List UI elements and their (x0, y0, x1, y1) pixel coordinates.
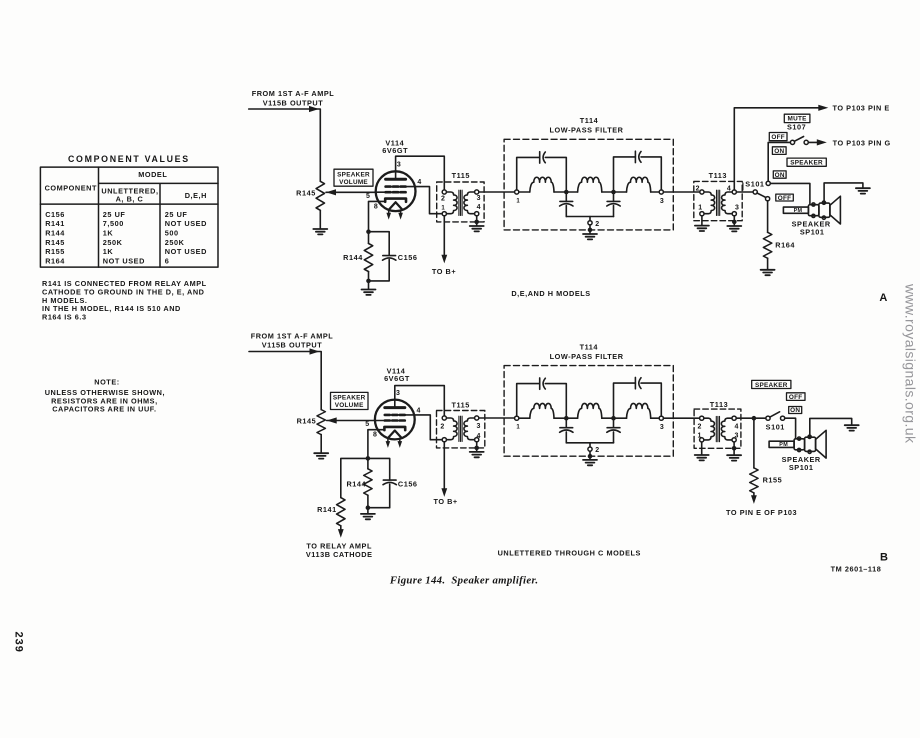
svg-text:VOLUME: VOLUME (339, 179, 368, 186)
bridge capacitor 2 wire (A) (614, 157, 662, 190)
node cathode junction (B) (366, 456, 371, 461)
svg-text:V115B OUTPUT: V115B OUTPUT (262, 340, 323, 349)
label box SPEAKER VOLUME (B) (331, 392, 369, 409)
svg-text:1K: 1K (103, 228, 114, 237)
svg-text:6V6GT: 6V6GT (384, 374, 410, 383)
speaker SP101 (A) (783, 196, 840, 224)
wire L1 to L2 (A) (554, 191, 578, 193)
wire junction to R141 (B) (341, 458, 368, 497)
svg-text:PM: PM (794, 208, 803, 214)
svg-text:1: 1 (441, 205, 445, 211)
wire S101 ON to speaker (A) (770, 183, 810, 204)
svg-text:3: 3 (660, 424, 664, 431)
svg-text:C156: C156 (398, 253, 418, 262)
svg-text:SPEAKER: SPEAKER (755, 382, 788, 389)
bottom rail (B) (566, 442, 613, 444)
svg-text:R145: R145 (297, 416, 317, 425)
svg-text:VOLUME: VOLUME (335, 402, 364, 409)
svg-text:T113: T113 (709, 171, 727, 180)
wire speaker to ground (A) (824, 183, 863, 203)
label box ON (S101 A) (773, 171, 786, 178)
svg-text:3: 3 (735, 205, 739, 212)
svg-text:5: 5 (365, 421, 369, 428)
resistor R155 (753, 418, 755, 468)
wire L2 to L3 (B) (602, 417, 627, 419)
svg-text:8: 8 (373, 432, 377, 439)
svg-text:ON: ON (775, 172, 785, 179)
ground T114 (A) (583, 234, 597, 239)
svg-text:1: 1 (698, 205, 702, 212)
label box ON (B) (789, 407, 802, 414)
T114 dashed box (B) (504, 366, 673, 457)
node junction 1 (B) (564, 416, 569, 421)
svg-text:R145: R145 (296, 188, 316, 197)
inductor L3 (A) (627, 177, 651, 192)
wire to P103 pin E (734, 108, 822, 190)
ground T114 (B) (583, 460, 597, 465)
resistor R164 (767, 201, 769, 233)
svg-text:COMPONENT VALUES: COMPONENT VALUES (68, 154, 190, 164)
wire plate to T115 pin2 (A) (396, 156, 445, 190)
svg-text:3: 3 (735, 432, 739, 439)
potentiometer R145 (B) (317, 410, 325, 435)
svg-text:LOW-PASS FILTER: LOW-PASS FILTER (550, 126, 624, 135)
svg-text:T114: T114 (580, 343, 599, 352)
component values table grid (40, 167, 218, 267)
wire R155 to pin E of P103 (753, 493, 755, 496)
svg-text:2: 2 (595, 221, 599, 228)
node junction 2 (B) (611, 416, 616, 421)
ground T115 (A) (470, 226, 484, 231)
svg-text:4: 4 (416, 407, 420, 414)
wire cathode down (B) (368, 430, 378, 456)
svg-text:FROM 1ST A-F AMPL: FROM 1ST A-F AMPL (251, 332, 334, 341)
svg-text:3: 3 (477, 195, 481, 202)
svg-text:NOTE:: NOTE: (94, 378, 119, 387)
svg-text:2: 2 (595, 447, 599, 454)
svg-text:239: 239 (13, 632, 25, 653)
svg-text:3: 3 (397, 162, 401, 169)
inductor L1 (B) (530, 403, 554, 418)
wire T113 pin3 to ground (B) (733, 442, 735, 455)
wire T115 pin3 to filter (B) (479, 417, 515, 419)
shunt capacitor 1 (B) (565, 421, 567, 428)
svg-text:4: 4 (727, 185, 731, 192)
svg-text:TO B+: TO B+ (433, 497, 457, 506)
switch S107 (790, 140, 794, 144)
svg-text:2: 2 (440, 423, 444, 430)
svg-text:R141: R141 (317, 505, 337, 514)
svg-text:2: 2 (697, 424, 701, 431)
wire screen to T115 pin1 (A) (415, 187, 442, 214)
wire filter to T113 (A) (663, 191, 699, 193)
svg-text:6V6GT: 6V6GT (382, 146, 408, 155)
svg-text:4: 4 (477, 433, 481, 440)
svg-text:T115: T115 (451, 401, 469, 410)
svg-text:S101: S101 (766, 423, 785, 432)
svg-text:NOT USED: NOT USED (165, 219, 207, 228)
T114 terminal 2 (B) (589, 443, 591, 447)
node cathode junction (A) (366, 229, 371, 234)
wire R141 to relay ampl (340, 526, 342, 531)
svg-text:3: 3 (396, 390, 400, 397)
label box SPEAKER (A) (787, 158, 826, 166)
wire filter to T113 (B) (663, 417, 699, 419)
speaker SP101 (B) (769, 430, 826, 458)
svg-text:SP101: SP101 (789, 463, 814, 472)
svg-text:7,500: 7,500 (103, 219, 124, 228)
label box OFF (S107) (769, 133, 787, 141)
svg-text:250K: 250K (103, 238, 123, 247)
svg-text:SPEAKER: SPEAKER (333, 395, 366, 402)
svg-text:CAPACITORS ARE IN UUF.: CAPACITORS ARE IN UUF. (52, 405, 156, 414)
svg-text:PM: PM (779, 442, 788, 448)
node junction 2 (A) (611, 190, 616, 195)
svg-text:2: 2 (696, 185, 700, 192)
ground speaker (A) (856, 188, 870, 193)
label box SPEAKER VOLUME (A) (334, 169, 373, 186)
wire term2 to ground (B) (589, 451, 591, 459)
bridge capacitor 1 (A) (540, 152, 546, 163)
ground below R145 (B) (314, 453, 328, 458)
svg-text:25 UF: 25 UF (165, 210, 188, 219)
inductor L2 (A) (578, 177, 602, 192)
svg-text:D,E,H: D,E,H (185, 191, 207, 200)
label box MUTE (784, 114, 810, 122)
svg-text:T113: T113 (710, 400, 728, 409)
svg-text:R145: R145 (45, 238, 65, 247)
shunt capacitor 1 (A) (565, 194, 567, 201)
label box ON (S107) (772, 147, 786, 155)
node junction 1 (A) (564, 190, 569, 195)
svg-text:1K: 1K (103, 247, 114, 256)
ground T113 right (B) (727, 455, 741, 460)
wire R144 bottom (B) (367, 495, 369, 508)
svg-text:R155: R155 (45, 247, 65, 256)
svg-text:OFF: OFF (789, 394, 803, 401)
wire input B (249, 352, 321, 410)
wire to P103 pin G (808, 141, 821, 143)
svg-text:SP101: SP101 (800, 228, 825, 237)
svg-text:R144: R144 (343, 253, 363, 262)
svg-text:4: 4 (477, 204, 481, 211)
ground T115 (B) (470, 452, 484, 457)
ground T113 left (B) (695, 455, 709, 460)
svg-text:TO B+: TO B+ (432, 267, 456, 276)
bridge capacitor 1 (B) (540, 378, 546, 389)
inductor L1 (A) (530, 177, 554, 192)
inductor L2 (B) (578, 403, 602, 418)
capacitor C156 (B) (383, 480, 396, 485)
T114 dashed box (A) (504, 139, 673, 230)
svg-text:R144: R144 (346, 479, 366, 488)
svg-text:SPEAKER: SPEAKER (790, 160, 823, 167)
svg-text:Figure 144. Speaker amplifier: Figure 144. Speaker amplifier. (389, 575, 538, 587)
svg-text:T114: T114 (580, 116, 599, 125)
wire C156 bottom (A) (369, 259, 390, 281)
svg-text:250K: 250K (165, 238, 185, 247)
wire T115 pin4 to ground (A) (476, 216, 478, 225)
wire R164 to ground (767, 258, 769, 269)
svg-text:UNLETTERED THROUGH C MODELS: UNLETTERED THROUGH C MODELS (498, 548, 641, 557)
ground speaker (B) (845, 425, 859, 430)
wire junction to C156 (B) (368, 458, 390, 480)
bridge capacitor 2 (A) (635, 151, 641, 162)
svg-text:NOT USED: NOT USED (165, 247, 207, 256)
svg-text:S101: S101 (745, 179, 764, 188)
svg-text:V115B OUTPUT: V115B OUTPUT (263, 99, 324, 108)
svg-text:R155: R155 (763, 476, 783, 485)
svg-text:A, B, C: A, B, C (116, 195, 144, 204)
svg-text:8: 8 (374, 203, 378, 210)
label box OFF (B) (787, 393, 806, 401)
bridge capacitor 1 wire (A) (517, 157, 567, 190)
svg-text:5: 5 (366, 193, 370, 200)
wire C156 bottom (B) (368, 484, 390, 508)
wire cathode down (A) (369, 201, 379, 229)
wire S101 to speaker (B) (785, 418, 796, 438)
svg-text:OFF: OFF (771, 134, 785, 141)
svg-text:www.royalsignals.org.uk: www.royalsignals.org.uk (903, 283, 919, 444)
svg-text:S107: S107 (787, 123, 806, 132)
wire L2 to L3 (A) (602, 191, 627, 193)
bridge capacitor 1 wire (B) (517, 384, 567, 417)
inductor L3 (B) (627, 403, 651, 418)
svg-text:1: 1 (516, 425, 520, 431)
wire input A (249, 109, 321, 181)
svg-text:1: 1 (516, 198, 520, 204)
svg-text:V113B CATHODE: V113B CATHODE (306, 550, 373, 559)
wire T115 pin4 to ground (B) (476, 442, 478, 451)
switch S101 (B) (766, 416, 770, 420)
svg-text:FROM 1ST A-F AMPL: FROM 1ST A-F AMPL (252, 89, 335, 98)
svg-text:2: 2 (441, 195, 445, 202)
T114 terminal 1 (B) (515, 416, 519, 420)
wire R145 to ground (A) (319, 210, 321, 228)
wire wiper to grid (B) (327, 420, 376, 422)
resistor R141 (337, 498, 345, 526)
wire speaker to ground (B) (810, 418, 852, 437)
svg-text:OFF: OFF (778, 195, 792, 202)
svg-text:TO P103 PIN G: TO P103 PIN G (833, 138, 891, 147)
svg-text:TM 2601–118: TM 2601–118 (831, 565, 882, 574)
svg-text:T115: T115 (452, 171, 470, 180)
ground T113 left (A) (695, 226, 709, 231)
wire T113 pin1 to ground (A) (701, 216, 703, 225)
wire L3 to term3 (A) (651, 191, 660, 193)
wire to B+ (B) (443, 442, 445, 488)
svg-text:4: 4 (417, 179, 421, 186)
svg-text:TO PIN E OF P103: TO PIN E OF P103 (726, 508, 797, 517)
T114 terminal 3 (B) (659, 416, 663, 420)
svg-text:4: 4 (735, 424, 739, 431)
label box OFF (S101 A) (776, 194, 794, 201)
shunt capacitor 2 (A) (613, 194, 615, 201)
wire R144 to ground (A) (368, 272, 370, 289)
wiper arrow R145 (A) (326, 189, 336, 195)
wire term1 to L1 (B) (519, 417, 530, 419)
wire L3 to term3 (B) (651, 417, 660, 419)
tube V114 6V6GT (A) (376, 171, 416, 219)
wire plate to T115 pin2 (B) (395, 386, 445, 416)
bridge capacitor 2 wire (B) (614, 383, 662, 416)
svg-text:TO RELAY AMPL: TO RELAY AMPL (306, 541, 372, 550)
svg-text:R144: R144 (45, 228, 65, 237)
svg-text:ON: ON (790, 407, 800, 414)
ground below R145 (A) (313, 229, 327, 234)
ground T113 right (A) (727, 226, 741, 231)
label box SPEAKER (B) (752, 380, 791, 388)
wire junction to C156 (A) (369, 232, 390, 256)
T114 terminal 2 (A) (589, 217, 591, 221)
wire T113 pin4 to S101 (A) (736, 191, 753, 193)
wire T113 pin4 to S101 (B) (736, 417, 766, 419)
tube V114 6V6GT (B) (375, 400, 415, 448)
ground below R144 (A) (362, 290, 376, 295)
svg-text:1: 1 (697, 432, 701, 439)
wire S101 ON up to S107 (768, 142, 790, 181)
shunt capacitor 2 (B) (613, 421, 615, 428)
svg-text:TO P103 PIN E: TO P103 PIN E (833, 104, 890, 113)
wire T113 pin3 to ground (A) (733, 216, 735, 226)
svg-text:D,E,AND H MODELS: D,E,AND H MODELS (511, 289, 590, 298)
svg-text:C156: C156 (45, 210, 65, 219)
capacitor C156 (A) (383, 256, 396, 261)
svg-text:C156: C156 (398, 479, 418, 488)
svg-text:LOW-PASS FILTER: LOW-PASS FILTER (550, 352, 624, 361)
svg-text:R164: R164 (775, 241, 795, 250)
wire screen to T115 pin1 (B) (414, 415, 442, 440)
bottom rail (A) (566, 216, 613, 218)
wire term2 to ground (A) (589, 225, 591, 233)
svg-text:B: B (880, 552, 888, 564)
svg-text:ON: ON (774, 148, 784, 155)
wire R145 to ground (B) (320, 435, 322, 453)
potentiometer R145 (A) (316, 181, 324, 210)
resistor R144 (B) (367, 461, 369, 469)
svg-text:3: 3 (660, 198, 664, 205)
svg-text:NOT USED: NOT USED (103, 257, 145, 266)
svg-text:6: 6 (165, 257, 170, 266)
T114 terminal 3 (A) (659, 190, 663, 194)
wire term1 to L1 (A) (519, 191, 530, 193)
svg-text:SPEAKER: SPEAKER (337, 172, 370, 179)
wire L1 to L2 (B) (554, 417, 578, 419)
ground below R144 (B) (367, 508, 369, 514)
svg-text:3: 3 (477, 423, 481, 430)
svg-text:MODEL: MODEL (138, 170, 167, 179)
node junction R155 (B) (752, 416, 757, 421)
wiper arrow R145 (B) (327, 417, 337, 423)
svg-text:R164 IS 6.3: R164 IS 6.3 (42, 313, 87, 322)
svg-text:R141: R141 (45, 219, 65, 228)
wire T113 pin1 to ground (B) (701, 442, 703, 454)
bridge capacitor 2 (B) (635, 377, 641, 388)
svg-text:A: A (879, 292, 887, 304)
T114 terminal 1 (A) (515, 190, 519, 194)
svg-text:COMPONENT: COMPONENT (45, 184, 97, 193)
svg-text:R164: R164 (45, 257, 65, 266)
wire wiper to grid (A) (326, 191, 376, 193)
ground below R164 (761, 270, 775, 275)
resistor R144 (A) (368, 234, 370, 244)
svg-text:500: 500 (165, 228, 179, 237)
wire to B+ (A) (443, 216, 445, 255)
wire T115 pin3 to filter (A) (479, 191, 515, 193)
svg-text:25 UF: 25 UF (103, 210, 126, 219)
